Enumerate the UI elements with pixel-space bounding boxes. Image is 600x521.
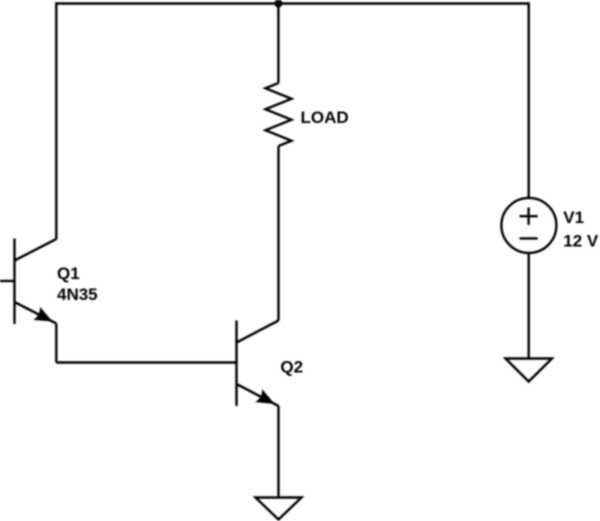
Q1 base bar	[13, 239, 15, 325]
svg-text:V1: V1	[563, 208, 584, 227]
svg-text:Q2: Q2	[280, 357, 303, 376]
Q1 collector diagonal	[15, 239, 57, 261]
wire V1 bottom lead	[528, 253, 530, 359]
V1 circle	[501, 198, 556, 253]
wire Q1 emitter to Q2 base	[56, 361, 236, 363]
wire Q1 emitter down	[55, 324, 57, 363]
svg-text:4N35: 4N35	[57, 285, 98, 304]
Q2 base bar	[235, 321, 237, 407]
wire V1 top lead	[528, 2, 530, 198]
Q1 emitter arrowhead	[33, 307, 52, 322]
transistor Q1 (4N35 output)	[0, 239, 56, 325]
V1 plus sign	[520, 208, 538, 225]
Q1 base lead	[0, 280, 15, 282]
wire resistor top lead	[277, 4, 279, 84]
wire left rail	[55, 2, 57, 239]
svg-text:LOAD: LOAD	[301, 108, 349, 127]
transistor Q2	[237, 321, 279, 407]
Q2 collector diagonal	[237, 321, 279, 343]
Q1 emitter diagonal	[15, 302, 57, 324]
svg-text:12 V: 12 V	[563, 232, 599, 251]
V1 minus sign	[520, 237, 538, 239]
svg-text:Q1: Q1	[57, 264, 80, 283]
node junction dot (top rail / load)	[274, 0, 282, 8]
Q2 emitter diagonal	[237, 384, 279, 406]
wire top rail	[56, 2, 528, 4]
resistor LOAD	[266, 83, 292, 146]
ground under Q2	[256, 498, 302, 520]
Q2 emitter arrowhead	[255, 389, 274, 404]
wire Q2 emitter down	[277, 406, 279, 498]
wire load to Q2 collector	[277, 146, 279, 321]
voltage source V1	[501, 198, 556, 253]
ground under V1	[506, 359, 553, 382]
